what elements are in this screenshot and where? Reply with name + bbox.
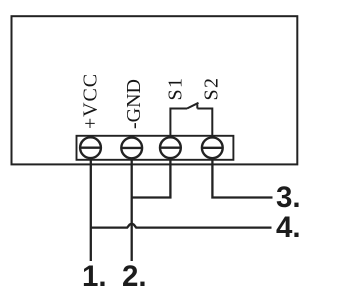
svg-text:1.: 1.	[82, 260, 107, 293]
wire 1 from +VCC terminal to lead 1	[90, 158, 92, 261]
terminal 3 screw (S1)	[160, 137, 181, 158]
terminal 2 screw (-GND)	[121, 138, 142, 159]
wire 3 from S1 terminal joining wire 2	[132, 158, 171, 197]
svg-text:4.: 4.	[276, 211, 301, 244]
svg-text:+VCC: +VCC	[80, 73, 102, 129]
terminal 1 screw (+VCC)	[80, 137, 101, 158]
svg-text:-GND: -GND	[123, 79, 145, 129]
switch SW1 between S1 and S2	[170, 103, 212, 138]
wire 4 from S2 terminal to lead 3	[212, 158, 272, 197]
terminal block TB1	[77, 136, 234, 160]
svg-text:S2: S2	[201, 77, 223, 101]
wire 2 from -GND terminal to lead 2	[131, 158, 133, 261]
wire lead 4 with hop over wire 2	[91, 224, 272, 228]
svg-text:S1: S1	[165, 77, 187, 101]
device outline rectangle	[12, 16, 298, 164]
terminal 4 screw (S2)	[202, 137, 223, 158]
svg-text:2.: 2.	[122, 260, 147, 293]
svg-text:3.: 3.	[276, 181, 301, 214]
